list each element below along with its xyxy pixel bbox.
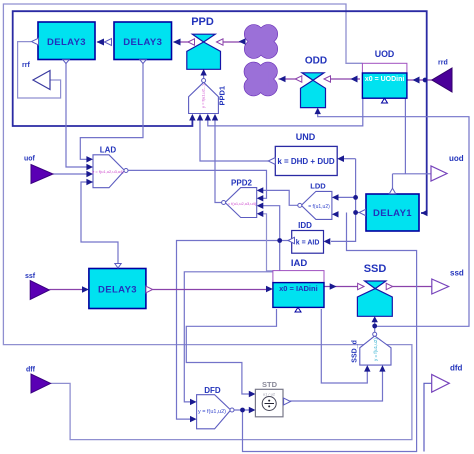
svg-text:y = f(u1,u2,..): y = f(u1,u2,..) xyxy=(201,84,206,108)
svg-text:DELAY3: DELAY3 xyxy=(123,37,162,48)
svg-text:dfd: dfd xyxy=(450,364,463,373)
svg-text:LDD: LDD xyxy=(310,182,326,191)
svg-text:LAD: LAD xyxy=(100,146,117,155)
svg-text:DELAY1: DELAY1 xyxy=(373,208,412,219)
svg-text:dff: dff xyxy=(26,367,36,374)
svg-text:STD: STD xyxy=(262,380,278,389)
svg-text:rrf: rrf xyxy=(22,62,30,69)
svg-text:x0 = IADini: x0 = IADini xyxy=(279,284,318,293)
svg-text:= f(u1,u2): = f(u1,u2) xyxy=(308,204,330,210)
svg-text:SSD: SSD xyxy=(364,263,387,275)
svg-text:y = f(u1,u2): y = f(u1,u2) xyxy=(373,338,378,361)
svg-text:= f(u1,u2,u3,u4): = f(u1,u2,u3,u4) xyxy=(228,201,257,206)
svg-text:ssf: ssf xyxy=(25,273,36,280)
svg-text:k = DHD + DUD: k = DHD + DUD xyxy=(277,157,335,166)
svg-text:uod: uod xyxy=(449,154,464,163)
svg-text:y = f(u1,u2,u3,u4): y = f(u1,u2,u3,u4) xyxy=(92,169,124,174)
svg-text:ssd: ssd xyxy=(450,269,464,278)
svg-text:DFD: DFD xyxy=(204,386,221,395)
svg-text:UND: UND xyxy=(296,132,316,142)
svg-text:rrd: rrd xyxy=(438,60,448,67)
svg-text:y = f(u1,u2): y = f(u1,u2) xyxy=(198,409,226,415)
svg-text:DELAY3: DELAY3 xyxy=(47,37,86,48)
svg-text:k = AID: k = AID xyxy=(296,240,320,247)
svg-text:uof: uof xyxy=(24,156,36,163)
svg-text:u1 / u2: u1 / u2 xyxy=(263,392,276,397)
svg-text:PPD2: PPD2 xyxy=(231,179,252,188)
svg-text:UOD: UOD xyxy=(375,49,395,59)
svg-text:SSD_d: SSD_d xyxy=(352,340,359,363)
svg-text:PPD: PPD xyxy=(191,16,214,28)
svg-text:x0 = UODini: x0 = UODini xyxy=(365,76,405,83)
svg-text:IAD: IAD xyxy=(291,258,308,269)
svg-text:ODD: ODD xyxy=(305,56,327,67)
svg-text:PPD1: PPD1 xyxy=(218,86,227,106)
svg-text:DELAY3: DELAY3 xyxy=(98,285,137,296)
svg-text:IDD: IDD xyxy=(298,221,312,230)
